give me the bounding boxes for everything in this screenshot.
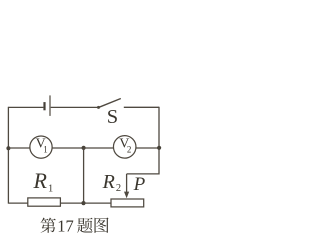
svg-text:17: 17 bbox=[57, 216, 74, 235]
battery cell: long positive plate bbox=[49, 95, 51, 116]
svg-text:P: P bbox=[133, 174, 146, 195]
wire: middle vertical link bbox=[83, 148, 85, 203]
wire: right rail down to slider bend bbox=[127, 107, 159, 174]
svg-text:2: 2 bbox=[127, 145, 131, 155]
svg-text:1: 1 bbox=[48, 183, 53, 194]
svg-text:S: S bbox=[107, 106, 118, 128]
svg-text:R: R bbox=[102, 171, 115, 193]
rheostat R2 box bbox=[111, 199, 144, 207]
resistor R1 label bbox=[33, 168, 54, 194]
caption character 图 bbox=[94, 217, 108, 232]
voltmeter V2 circle bbox=[113, 136, 136, 159]
wire: voltmeter row, left rail to V1 bbox=[8, 147, 30, 149]
wire: voltmeter row, V1 to middle junction bbox=[52, 147, 83, 149]
voltmeter V1 label bbox=[36, 137, 48, 155]
wire: bottom rail left corner to R1 bbox=[8, 202, 27, 204]
wire: top rail right segment (switch right lead) bbox=[124, 106, 159, 108]
resistor R2 label bbox=[102, 171, 122, 194]
node: junction dot right rail / voltmeter row bbox=[157, 146, 161, 150]
resistor R1 box bbox=[28, 198, 61, 206]
svg-text:R: R bbox=[33, 168, 48, 193]
node: junction dot middle of voltmeter row bbox=[82, 146, 86, 150]
wire: bottom rail R1 to middle junction bbox=[60, 202, 83, 204]
wire: voltmeter row, middle junction to V2 bbox=[84, 147, 114, 149]
voltmeter V1 circle bbox=[30, 136, 52, 158]
node: junction dot bottom rail / middle link bbox=[81, 201, 85, 205]
svg-text:1: 1 bbox=[43, 144, 48, 154]
switch S: open blade bbox=[98, 99, 121, 108]
wire: voltmeter row, V2 to right rail bbox=[136, 147, 159, 149]
svg-text:2: 2 bbox=[116, 183, 121, 194]
node: junction dot left rail / voltmeter row bbox=[6, 146, 10, 150]
caption character 第 bbox=[41, 218, 56, 233]
rheostat slider arrowhead onto R2 bbox=[124, 192, 129, 199]
voltmeter V2 label bbox=[119, 137, 131, 155]
wire: top rail left segment (battery left lead) bbox=[8, 106, 43, 108]
wire: top rail between battery and switch S bbox=[51, 106, 99, 108]
switch S: pivot contact dot bbox=[97, 106, 100, 109]
rheostat slider arrow stem bbox=[126, 174, 128, 193]
caption text 17 bbox=[57, 216, 74, 235]
caption character 题 bbox=[77, 218, 92, 233]
battery cell: short negative plate bbox=[43, 102, 45, 110]
slider P label bbox=[133, 174, 146, 195]
wire: left rail bbox=[7, 107, 9, 204]
wire: bottom rail middle junction to R2 bbox=[84, 202, 112, 204]
switch S label bbox=[107, 106, 118, 128]
